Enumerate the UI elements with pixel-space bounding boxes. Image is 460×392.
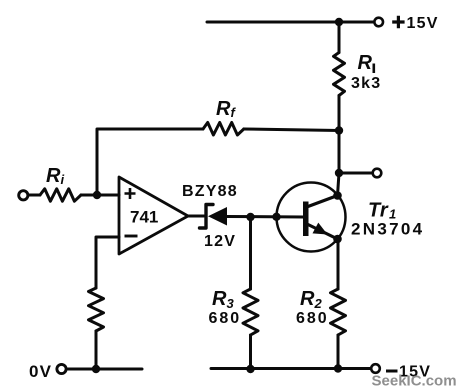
op-amp plus input marker (125, 188, 136, 199)
svg-text:i: i (61, 172, 65, 187)
svg-text:680: 680 (209, 310, 242, 327)
op-amp minus input marker (125, 235, 138, 238)
resistor Rf (203, 123, 244, 136)
node collector junction (333, 191, 342, 200)
wire R3 top (249, 217, 252, 289)
svg-text:R: R (212, 288, 227, 310)
resistor Ri (40, 189, 81, 201)
node Rf junction (335, 126, 343, 134)
diode D1 zener BZY88 cathode bar (200, 205, 214, 229)
svg-text:R: R (46, 165, 61, 187)
wire 0V rail (66, 368, 142, 371)
svg-text:SeekIC.com: SeekIC.com (372, 373, 457, 390)
wire Rf right segment (244, 129, 339, 131)
transistor Q1 collector (308, 196, 338, 207)
terminal input (19, 191, 28, 200)
wire -15V rail (211, 367, 371, 370)
wire output stub (339, 172, 373, 175)
transistor Q1 circle (277, 183, 346, 252)
node noninverting input junction (93, 191, 101, 199)
svg-text:f: f (231, 105, 237, 120)
svg-text:2: 2 (314, 296, 323, 311)
resistor R2 (331, 289, 346, 335)
wire top +15V rail (207, 21, 374, 24)
label +15V (392, 16, 404, 28)
wire R1 top (338, 22, 341, 53)
svg-text:0V: 0V (29, 362, 52, 381)
wire R1 bottom to output stub (338, 96, 341, 174)
svg-text:12V: 12V (204, 233, 236, 250)
wire resistor to 0V rail (95, 331, 98, 369)
transistor Q1 emitter (308, 225, 338, 240)
resistor (unlabeled, inverting input to 0V) (89, 288, 104, 331)
op-amp U1 741 triangle (119, 177, 188, 254)
svg-text:R: R (300, 288, 315, 310)
svg-text:Tr: Tr (368, 200, 389, 222)
wire Rf horizontal left segment (97, 129, 203, 195)
svg-text:15V: 15V (407, 15, 439, 32)
svg-text:R: R (358, 52, 373, 74)
wire R2 to -15V rail (337, 335, 340, 369)
terminal +15V (374, 18, 383, 27)
terminal 0V (57, 364, 66, 373)
svg-text:680: 680 (296, 310, 329, 327)
node output stub junction (335, 169, 343, 177)
wire op-amp output (188, 215, 204, 218)
node R2 rail junction (334, 364, 342, 372)
wire emitter to R2 (337, 239, 340, 289)
resistor R1 (334, 53, 345, 96)
svg-text:2N3704: 2N3704 (351, 220, 424, 239)
resistor R3 (243, 289, 258, 335)
svg-text:R: R (216, 98, 231, 120)
wire R3 bottom (249, 335, 252, 369)
wire input to Ri (29, 194, 41, 197)
svg-text:3: 3 (227, 296, 235, 311)
node base junction (272, 213, 280, 221)
node R3 rail junction (246, 365, 254, 373)
label -15V (386, 370, 398, 373)
svg-text:3k3: 3k3 (351, 75, 381, 92)
terminal output (373, 169, 382, 178)
diode D1 zener triangle (208, 207, 227, 226)
svg-text:BZY88: BZY88 (182, 183, 238, 200)
transistor Q1 base bar (303, 202, 309, 237)
terminal -15V (371, 364, 380, 373)
node +15V rail junction (335, 18, 343, 26)
wire zener to base (227, 215, 304, 219)
node 0V junction (92, 365, 100, 373)
wire Ri to op-amp (81, 194, 119, 197)
wire collector to rail (338, 173, 340, 196)
svg-text:741: 741 (130, 208, 158, 227)
node emitter junction (333, 235, 342, 244)
transistor Q1 emitter arrow (313, 223, 328, 235)
node R3 tap (246, 213, 254, 221)
wire inverting input (96, 237, 119, 288)
